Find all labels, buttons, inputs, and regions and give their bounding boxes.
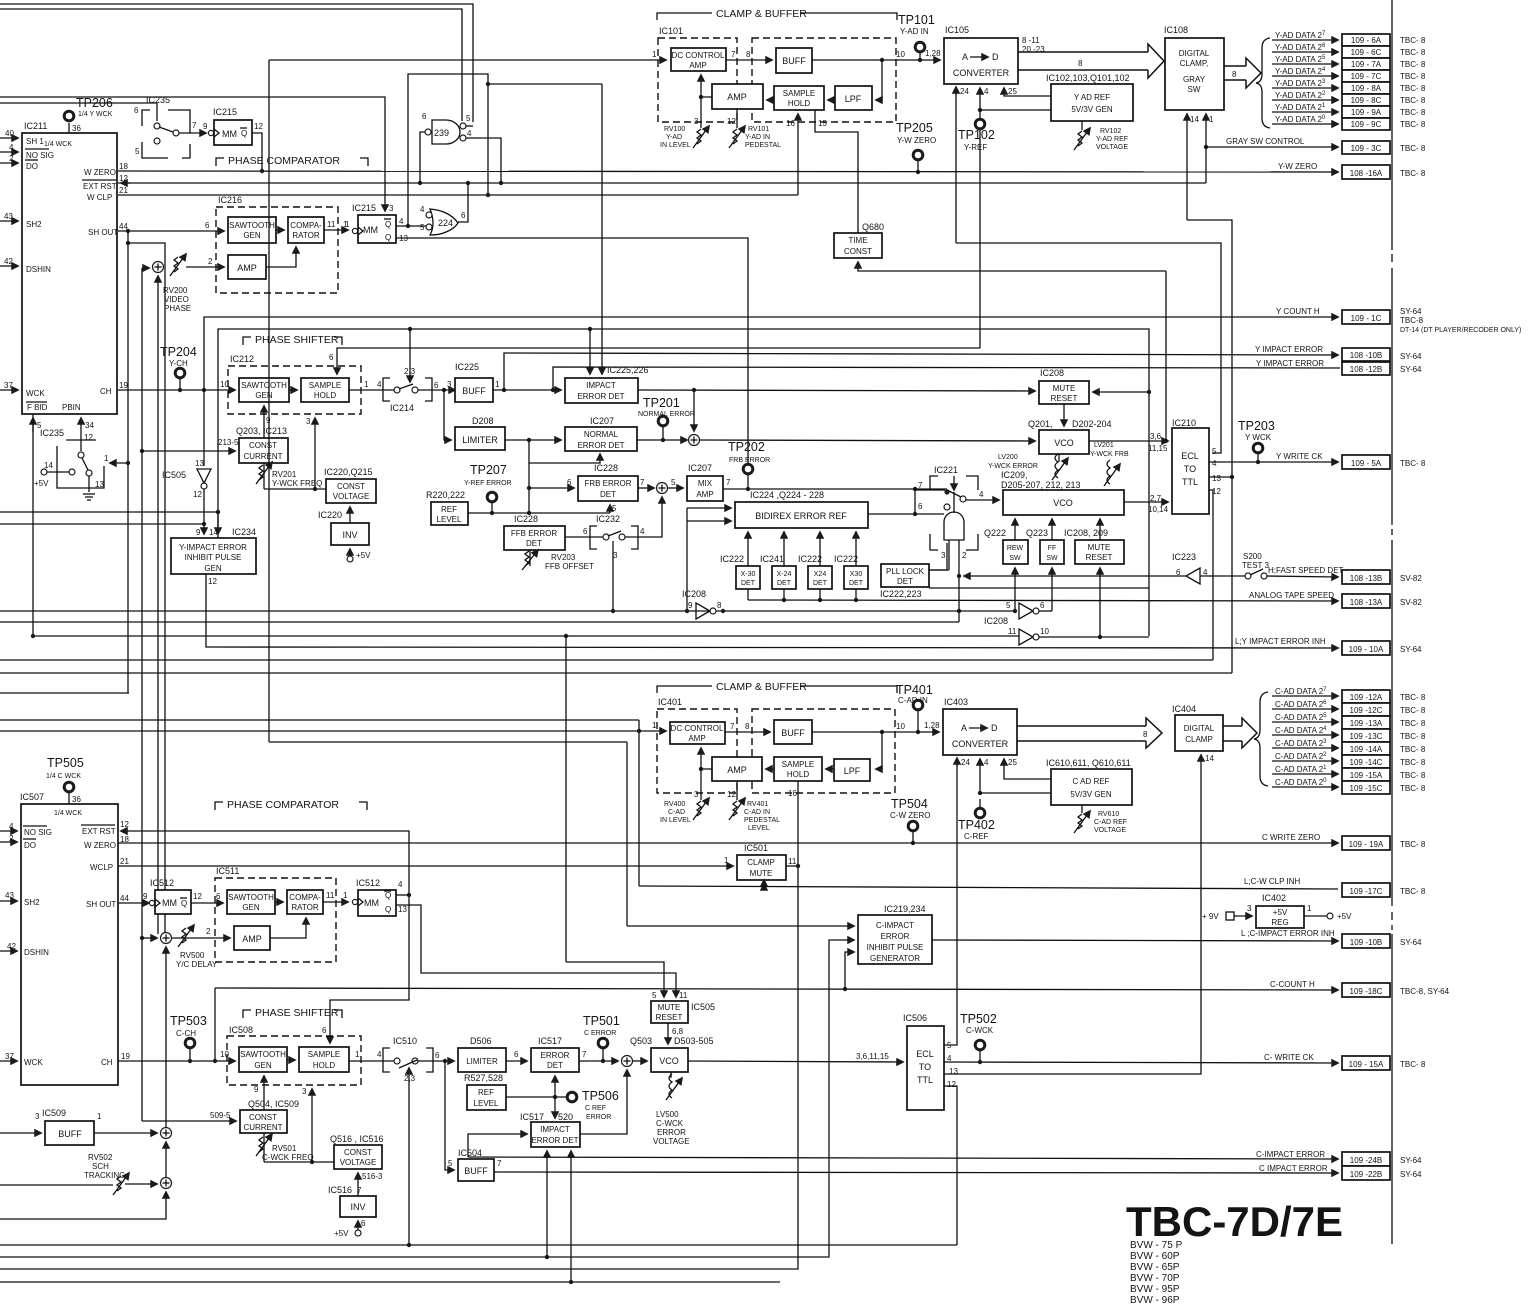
svg-text:TO: TO: [919, 1062, 931, 1072]
wire sawtoothC2 to sampleholdC2: [287, 1059, 295, 1061]
svg-text:9: 9: [203, 122, 208, 131]
svg-text:IC212: IC212: [230, 354, 254, 364]
monostable IC215 MM second: [345, 203, 408, 243]
svg-text:DSHIN: DSHIN: [24, 948, 49, 957]
wire sample hold to AMP: [767, 99, 774, 101]
svg-text:BVW - 70P: BVW - 70P: [1130, 1273, 1180, 1284]
svg-text:IC232: IC232: [596, 514, 620, 524]
block SAMPLE HOLD C clamp: [774, 757, 822, 781]
wire into IC234 pin14: [217, 512, 219, 534]
svg-text:6: 6: [514, 1050, 519, 1059]
testpoint TP207: [464, 463, 512, 513]
svg-text:FF: FF: [1048, 545, 1057, 552]
svg-text:1: 1: [97, 1112, 102, 1121]
svg-text:Y-W ZERO: Y-W ZERO: [897, 136, 936, 145]
svg-text:2: 2: [208, 257, 213, 266]
wire DC CONTROL C to BUFF C: [725, 731, 770, 733]
wire normal det out to summing node: [637, 439, 687, 441]
svg-text:IC504: IC504: [458, 1148, 482, 1158]
svg-text:8: 8: [1232, 70, 1237, 79]
svg-text:IC512: IC512: [356, 878, 380, 888]
svg-text:AMP: AMP: [242, 934, 262, 944]
svg-text:IC516: IC516: [328, 1185, 352, 1195]
svg-text:IC216: IC216: [218, 195, 242, 205]
svg-text:L;Y IMPACT ERROR INH: L;Y IMPACT ERROR INH: [1235, 637, 1326, 646]
svg-text:COMPA-: COMPA-: [289, 893, 321, 902]
svg-text:TBC- 8: TBC- 8: [1400, 771, 1426, 780]
svg-text:CONST: CONST: [249, 441, 277, 450]
label PHASE SHIFTER C: [243, 1007, 342, 1019]
svg-text:516-3: 516-3: [362, 1172, 383, 1181]
svg-text:C-AD IN: C-AD IN: [898, 696, 928, 705]
svg-text:224: 224: [438, 218, 453, 228]
wire summing out to VCO1: [700, 440, 1036, 441]
svg-text:16: 16: [788, 789, 797, 798]
block MUTE RESET IC505: [651, 1001, 715, 1023]
svg-text:8: 8: [745, 722, 750, 731]
wire pll lock det y588: [929, 587, 1149, 589]
svg-text:509-5: 509-5: [210, 1111, 231, 1120]
wire down to BUFF C2: [445, 1061, 454, 1170]
trimmer RV401: [727, 781, 780, 832]
dashed box IC401: [657, 709, 737, 793]
wire x602 into impact det top: [601, 84, 603, 374]
net C-IMPACT ERROR: [468, 1150, 1422, 1166]
svg-text:RV610: RV610: [1098, 811, 1119, 818]
svg-text:BUFF: BUFF: [782, 56, 806, 66]
wire EXT RST C net: [130, 831, 409, 1043]
svg-text:PEDESTAL: PEDESTAL: [745, 142, 781, 149]
svg-text:6: 6: [918, 502, 923, 511]
svg-text:TBC- 8: TBC- 8: [1400, 60, 1426, 69]
svg-text:REG: REG: [1271, 918, 1288, 927]
svg-text:10,14: 10,14: [1148, 505, 1169, 514]
wire sample hold C to AMP C: [766, 768, 774, 770]
svg-text:TBC- 8: TBC- 8: [1400, 120, 1426, 129]
svg-text:S200: S200: [1243, 552, 1262, 561]
block CONST VOLTAGE Y: [324, 467, 376, 503]
wire gate239 pin5: [466, 125, 473, 127]
svg-text:TP205: TP205: [896, 121, 933, 135]
wire sample hold pin16 (W CLP): [797, 114, 799, 195]
wire bus y1257: [0, 940, 854, 1257]
svg-text:W ZERO: W ZERO: [84, 841, 116, 850]
detector X-24 DET: [760, 554, 796, 589]
svg-text:CURRENT: CURRENT: [243, 452, 282, 461]
block MIX AMP IC207: [687, 463, 723, 501]
svg-text:C-WCK: C-WCK: [966, 1026, 994, 1035]
net Y-AD DATA 2^3: [1272, 79, 1426, 94]
svg-text:VOLTAGE: VOLTAGE: [340, 1158, 377, 1167]
wire impact det C out to summing bottom: [580, 1070, 627, 1134]
svg-text:4: 4: [467, 129, 472, 138]
svg-text:RATOR: RATOR: [292, 231, 319, 240]
svg-text:109 -17C: 109 -17C: [1350, 887, 1383, 896]
wire branch to normal det bottom: [529, 440, 600, 463]
block SAWTOOTH GEN Y1: [228, 217, 276, 243]
svg-text:10: 10: [1040, 627, 1049, 636]
testpoint TP402: [958, 799, 995, 841]
block IMPACT ERROR DET IC225,226: [565, 365, 649, 403]
monostable IC512 MM first C: [149, 878, 202, 914]
svg-text:14: 14: [1190, 115, 1199, 124]
svg-text:108 -16A: 108 -16A: [1350, 169, 1383, 178]
svg-text:LEVEL: LEVEL: [474, 1099, 499, 1108]
svg-text:CONVERTER: CONVERTER: [953, 68, 1010, 78]
svg-text:GRAY: GRAY: [1183, 75, 1206, 84]
svg-text:14: 14: [209, 528, 218, 537]
svg-text:X-24: X-24: [777, 571, 792, 578]
svg-text:4: 4: [979, 490, 984, 499]
svg-text:3: 3: [447, 380, 452, 389]
svg-text:7: 7: [726, 478, 731, 487]
svg-text:LIMITER: LIMITER: [462, 435, 498, 445]
wire RV501 to CONST VOLTAGE C: [264, 1161, 334, 1163]
svg-text:7: 7: [640, 478, 645, 487]
svg-text:DET: DET: [547, 1061, 563, 1070]
svg-text:MIX: MIX: [698, 479, 713, 488]
wire bus into DC CONTROL AMP: [269, 59, 666, 61]
svg-text:BVW - 96P: BVW - 96P: [1130, 1295, 1180, 1304]
svg-text:6: 6: [134, 106, 139, 115]
label PHASE SHIFTER Y: [243, 334, 342, 346]
label CLAMP & BUFFER Y: [657, 8, 897, 20]
svg-text:MUTE: MUTE: [1053, 384, 1076, 393]
wire mute bus into impact det top: [589, 329, 591, 374]
svg-text:109 - 6C: 109 - 6C: [1351, 48, 1382, 57]
net GRAY SW CONTROL: [1206, 137, 1426, 154]
svg-text:TRACKING: TRACKING: [84, 1171, 125, 1180]
wires SW blocks to VCO2: [1014, 519, 1016, 540]
svg-text:GEN: GEN: [242, 903, 260, 912]
svg-text:COMPA-: COMPA-: [290, 221, 322, 230]
summing node C 3: [161, 1178, 172, 1189]
svg-text:2: 2: [962, 551, 967, 560]
svg-text:C ERROR: C ERROR: [584, 1030, 616, 1037]
svg-text:TBC- 8: TBC- 8: [1400, 887, 1426, 896]
svg-text:109 - 9C: 109 - 9C: [1351, 120, 1382, 129]
wire feedback to LPF C: [876, 732, 882, 769]
svg-text:5V/3V GEN: 5V/3V GEN: [1070, 790, 1112, 799]
svg-text:TBC- 8: TBC- 8: [1400, 719, 1426, 728]
or gate 224: [420, 205, 466, 235]
svg-text:CLAMP,: CLAMP,: [1180, 59, 1209, 68]
svg-text:AMP: AMP: [727, 92, 747, 102]
testpoint TP203: [1238, 419, 1275, 462]
wire mute reset C to VCO C: [667, 1023, 669, 1044]
svg-text:LV200: LV200: [998, 454, 1018, 461]
svg-text:Y-AD DATA 24: Y-AD DATA 24: [1275, 67, 1326, 76]
svg-text:1,28: 1,28: [924, 721, 940, 730]
svg-text:INHIBIT PULSE: INHIBIT PULSE: [185, 553, 242, 562]
svg-text:WCLP: WCLP: [90, 863, 113, 872]
wire bus y512: [0, 511, 218, 513]
svg-text:IC228: IC228: [514, 514, 538, 524]
brace Y data fanout: [1256, 38, 1270, 128]
svg-text:SY-64: SY-64: [1400, 352, 1422, 361]
svg-text:TP201: TP201: [643, 396, 680, 410]
svg-text:VOLTAGE: VOLTAGE: [1096, 144, 1128, 151]
svg-text:LEVEL: LEVEL: [748, 825, 770, 832]
svg-text:SY-64: SY-64: [1400, 1156, 1422, 1165]
wire IC235 pin1 control: [110, 462, 128, 464]
svg-text:34: 34: [85, 421, 94, 430]
block SAWTOOTH GEN C1: [227, 890, 275, 914]
svg-text:IC215: IC215: [213, 107, 237, 117]
connector bus bar right: [1391, 0, 1393, 1244]
svg-text:TBC-8, SY-64: TBC-8, SY-64: [1400, 987, 1450, 996]
svg-text:TP502: TP502: [960, 1012, 997, 1026]
svg-text:D: D: [991, 723, 998, 733]
svg-text:+5V: +5V: [334, 1229, 349, 1238]
power +5V INV C: [334, 1219, 366, 1238]
svg-text:VOLTAGE: VOLTAGE: [1094, 827, 1126, 834]
svg-text:C REF: C REF: [585, 1105, 606, 1112]
svg-text:6: 6: [322, 1026, 327, 1035]
svg-text:1: 1: [1209, 115, 1214, 124]
svg-text:IC508: IC508: [229, 1025, 253, 1035]
svg-text:109 - 1C: 109 - 1C: [1351, 314, 1382, 323]
svg-text:Q680: Q680: [862, 222, 884, 232]
wire y742 link: [269, 741, 627, 743]
block IC234 Y-IMPACT ERROR INHIBIT PULSE GEN: [171, 527, 256, 586]
net C-AD DATA 2^5: [1272, 713, 1426, 729]
svg-text:VCO: VCO: [1054, 438, 1074, 448]
wire bus y636 (mute line): [33, 635, 1019, 637]
svg-text:42: 42: [4, 257, 13, 266]
svg-text:Y COUNT H: Y COUNT H: [1276, 307, 1320, 316]
svg-text:1: 1: [495, 380, 500, 389]
svg-text:Y IMPACT ERROR: Y IMPACT ERROR: [1256, 359, 1324, 368]
svg-text:13: 13: [1212, 474, 1221, 483]
svg-text:Y-AD DATA 25: Y-AD DATA 25: [1275, 55, 1326, 64]
svg-text:IC401: IC401: [658, 697, 682, 707]
wire long riser x142: [141, 268, 143, 1121]
dashed box IC511: [215, 878, 336, 962]
wire bus y524: [0, 523, 204, 525]
svg-text:7: 7: [730, 722, 735, 731]
svg-text:9: 9: [196, 528, 201, 537]
switch S200 TEST3: [1200, 552, 1270, 579]
svg-text:LV500: LV500: [656, 1110, 679, 1119]
svg-text:8: 8: [1143, 730, 1148, 739]
svg-text:4: 4: [377, 1050, 382, 1059]
svg-text:IC208: IC208: [1040, 368, 1064, 378]
svg-text:12: 12: [193, 892, 202, 901]
svg-text:TBC- 8: TBC- 8: [1400, 732, 1426, 741]
svg-text:BVW - 75 P: BVW - 75 P: [1130, 1240, 1183, 1251]
svg-text:IC102,103,Q101,102: IC102,103,Q101,102: [1046, 73, 1130, 83]
net C WRITE ZERO connector: [1262, 833, 1426, 850]
svg-text:37: 37: [4, 381, 13, 390]
wire gate239 pin6: [420, 132, 425, 183]
svg-text:8: 8: [1078, 59, 1083, 68]
wire gate224 output: [458, 183, 468, 222]
svg-text:NORMAL: NORMAL: [584, 430, 619, 439]
svg-text:HOLD: HOLD: [313, 1061, 335, 1070]
svg-text:Y-REF ERROR: Y-REF ERROR: [464, 480, 512, 487]
block CONST CURRENT C: [210, 1099, 299, 1133]
block CONST CURRENT Y: [218, 426, 288, 463]
svg-text:IC209,: IC209,: [1001, 470, 1028, 480]
block C-IMPACT ERROR INHIBIT PULSE GENERATOR: [858, 904, 932, 964]
svg-text:CURRENT: CURRENT: [243, 1123, 282, 1132]
svg-text:Y-REF: Y-REF: [964, 143, 987, 152]
block FF SW Q223: [1026, 528, 1064, 564]
testpoint TP501: [583, 1014, 620, 1061]
svg-text:19: 19: [119, 381, 128, 390]
svg-text:DET: DET: [741, 580, 756, 587]
net C-AD DATA 2^4: [1272, 726, 1426, 742]
svg-text:7: 7: [918, 481, 923, 490]
svg-text:IC507: IC507: [20, 792, 44, 802]
svg-text:3: 3: [941, 551, 946, 560]
svg-text:RV100: RV100: [664, 126, 685, 133]
coil LV200: [988, 454, 1068, 480]
svg-text:C-AD DATA 22: C-AD DATA 22: [1275, 752, 1327, 761]
wire CH C line: [118, 1060, 235, 1062]
svg-text:AMP: AMP: [696, 490, 713, 499]
label PHASE COMPARATOR C: [215, 799, 367, 811]
wire mute reset right feed: [1093, 391, 1149, 393]
svg-text:IC214: IC214: [390, 403, 414, 413]
svg-text:CONVERTER: CONVERTER: [952, 739, 1009, 749]
wire MIX AMP out: [723, 488, 947, 490]
svg-text:SAMPLE: SAMPLE: [782, 760, 814, 769]
svg-text:11: 11: [326, 891, 335, 900]
svg-text:TBC- 8: TBC- 8: [1400, 745, 1426, 754]
wire pin14 link to write clock: [1187, 220, 1232, 673]
wire IC214 out node: [418, 389, 455, 391]
block LIMITER D208: [455, 416, 505, 450]
wire ECL C pin5 riser to ADC pin24: [944, 759, 957, 1045]
svg-text:AMP: AMP: [237, 263, 257, 273]
svg-text:IC506: IC506: [903, 1013, 927, 1023]
svg-text:108 -12B: 108 -12B: [1350, 365, 1382, 374]
svg-text:INV: INV: [350, 1202, 365, 1212]
svg-text:BUFF: BUFF: [464, 1166, 488, 1176]
svg-text:Y-AD REF: Y-AD REF: [1096, 136, 1128, 143]
svg-text:D503-505: D503-505: [674, 1036, 714, 1046]
svg-text:12: 12: [727, 117, 736, 126]
svg-text:3: 3: [302, 1087, 307, 1096]
svg-text:GEN: GEN: [255, 391, 273, 400]
svg-text:1: 1: [652, 50, 657, 59]
svg-text:C-WCK FREQ: C-WCK FREQ: [262, 1153, 314, 1162]
svg-text:SAMPLE: SAMPLE: [783, 89, 815, 98]
block DC CONTROL AMP Y: [671, 48, 726, 71]
svg-text:1,28: 1,28: [925, 49, 941, 58]
wire W CLP line: [118, 194, 798, 196]
wire riser x639 to clamp mute bus: [638, 720, 640, 886]
svg-text:8: 8: [717, 601, 722, 610]
svg-text:109 - 9A: 109 - 9A: [1351, 108, 1382, 117]
svg-text:TBC- 8: TBC- 8: [1400, 169, 1426, 178]
wire AMP C to RV400 riser: [701, 768, 712, 770]
svg-text:TBC- 8: TBC- 8: [1400, 96, 1426, 105]
summing node normal/impact: [689, 435, 700, 446]
wire into BUFF C: [0, 1132, 41, 1134]
svg-text:RV501: RV501: [272, 1144, 297, 1153]
svg-text:109 - 3C: 109 - 3C: [1351, 144, 1382, 153]
svg-text:SAMPLE: SAMPLE: [309, 381, 341, 390]
svg-text:SCH: SCH: [92, 1162, 109, 1171]
svg-text:3: 3: [306, 417, 311, 426]
wire pin3 riser: [314, 418, 316, 489]
svg-text:Q: Q: [385, 905, 391, 914]
svg-text:IC241: IC241: [760, 554, 784, 564]
svg-text:11: 11: [327, 220, 336, 229]
wire IC208B out to FF SW: [1039, 610, 1052, 612]
wire MUTE RESET2 bottom feed: [1099, 568, 1101, 637]
svg-text:108 -13A: 108 -13A: [1350, 598, 1383, 607]
wire INV to CONST VOLTAGE: [349, 507, 351, 523]
wire AMP C out up to comparator: [270, 918, 306, 938]
svg-text:DIGITAL: DIGITAL: [1179, 49, 1210, 58]
wire LPF C to sample hold C: [826, 768, 834, 770]
svg-text:IC512: IC512: [150, 878, 174, 888]
wire TP506 node to error det bottom: [554, 1076, 556, 1097]
svg-text:IC222: IC222: [834, 554, 858, 564]
svg-text:RV502: RV502: [88, 1153, 113, 1162]
wire bus y1245: [0, 1244, 957, 1246]
svg-text:Y-WCK ERROR: Y-WCK ERROR: [988, 463, 1038, 470]
svg-text:DET: DET: [526, 539, 542, 548]
svg-text:CLAMP & BUFFER: CLAMP & BUFFER: [716, 681, 807, 693]
wire mute distribution bus y329: [218, 329, 1149, 636]
wire into FRB det pin6: [529, 487, 574, 489]
svg-text:C-IMPACT: C-IMPACT: [876, 921, 914, 930]
net L;Y IMPACT ERROR INH connector: [1342, 641, 1422, 655]
junction dots top left: [486, 82, 490, 86]
svg-text:IC108: IC108: [1164, 25, 1188, 35]
svg-text:5: 5: [1006, 601, 1011, 610]
dashed box IC212: [228, 366, 361, 414]
wire RV201 to CONST VOLTAGE: [264, 488, 326, 490]
svg-text:4: 4: [640, 527, 645, 536]
wire MM2C pin13 to mute reset C: [396, 905, 676, 997]
svg-text:DET: DET: [897, 577, 913, 586]
svg-text:BIDIREX ERROR REF: BIDIREX ERROR REF: [755, 511, 847, 521]
buffer IC208 C: [1008, 627, 1049, 645]
svg-text:IC220,Q215: IC220,Q215: [324, 467, 373, 477]
svg-text:LEVEL: LEVEL: [437, 515, 462, 524]
svg-text:+5V: +5V: [1337, 912, 1352, 921]
wire IC510 lever to bus: [408, 1068, 410, 1245]
svg-text:Q: Q: [385, 233, 391, 242]
svg-text:Y WCK: Y WCK: [1245, 433, 1272, 442]
svg-text:1: 1: [104, 454, 109, 463]
svg-text:C-REF: C-REF: [964, 832, 989, 841]
wire ECL C pin13 to DIGITAL CLAMP pin14: [944, 755, 1201, 1074]
wire CH riser to count bus: [214, 988, 216, 1061]
wire sample hold pin15 to TIME CONST: [815, 110, 858, 233]
svg-text:H;FAST SPEED DET: H;FAST SPEED DET: [1268, 566, 1344, 575]
svg-text:7: 7: [192, 121, 197, 130]
svg-text:10: 10: [220, 1050, 229, 1059]
wire BUFF out to impact det: [493, 389, 561, 391]
svg-text:WCK: WCK: [26, 389, 45, 398]
wire ERROR DET out to summing: [579, 1060, 618, 1062]
svg-text:5V/3V GEN: 5V/3V GEN: [1071, 105, 1113, 114]
wire branch riser to ref level line: [528, 463, 530, 513]
label PHASE COMPARATOR Y: [216, 155, 368, 167]
svg-text:IC403: IC403: [944, 697, 968, 707]
svg-text:IC505: IC505: [691, 1002, 715, 1012]
pin 34 PBIN arrow: [80, 418, 82, 440]
block INV Y: [318, 510, 369, 545]
net C-AD DATA 2^6: [1272, 700, 1426, 716]
